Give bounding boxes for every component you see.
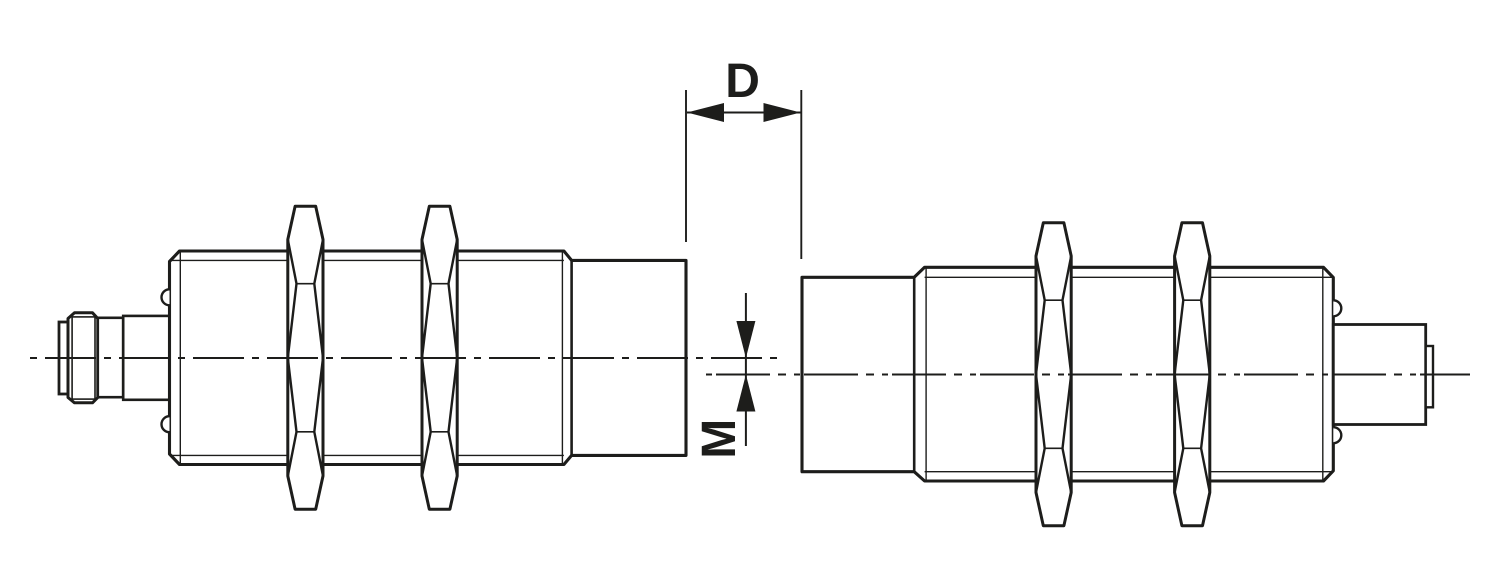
- svg-text:M: M: [693, 419, 746, 459]
- svg-text:D: D: [725, 55, 760, 108]
